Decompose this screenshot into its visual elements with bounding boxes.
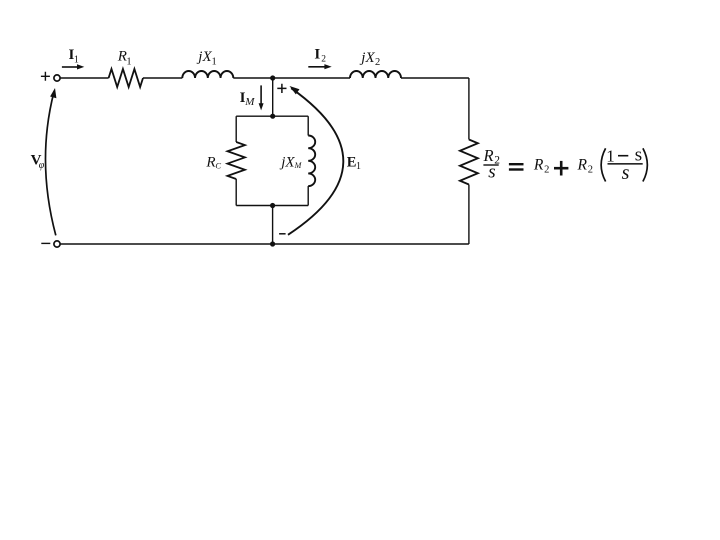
wire right lower [468, 185, 470, 245]
wire vertical top node to box [272, 78, 274, 116]
label E1 [347, 154, 361, 171]
current arrow I2 [308, 64, 331, 69]
svg-text:I: I [314, 47, 320, 63]
emf arc E1 [288, 86, 343, 235]
node junction bottom [270, 241, 275, 246]
svg-text:2: 2 [544, 164, 549, 175]
equation R2 first [533, 156, 549, 175]
box right lower wire [307, 186, 309, 205]
node junction box top [270, 114, 275, 119]
terminal plus sign (top left) [41, 72, 50, 81]
equation R2 second [577, 156, 593, 175]
label R1 [117, 49, 132, 68]
wire right upper [468, 78, 470, 140]
node junction box bottom [270, 203, 275, 208]
equation left parenthesis [601, 148, 605, 181]
svg-text:M: M [294, 161, 303, 170]
terminal minus sign (bottom left) [41, 242, 50, 244]
svg-text:R: R [577, 156, 588, 173]
svg-text:s: s [488, 161, 495, 182]
svg-text:2: 2 [588, 164, 593, 175]
equation plus sign [554, 161, 568, 176]
box bottom wire [236, 205, 308, 207]
box left lower wire [235, 179, 237, 206]
label IM [240, 90, 256, 108]
equation equals sign [509, 163, 524, 171]
resistor RC [228, 142, 245, 179]
svg-text:s: s [635, 145, 642, 166]
svg-text:M: M [244, 96, 255, 108]
svg-text:R: R [533, 156, 544, 173]
polarity plus (E1 top) [277, 84, 286, 93]
svg-text:s: s [622, 162, 630, 184]
svg-text:φ: φ [39, 160, 45, 171]
polarity minus (E1 bottom) [279, 233, 286, 235]
wire top segment 2 [143, 77, 182, 79]
equation right parenthesis [643, 148, 647, 181]
svg-text:1: 1 [126, 56, 131, 67]
wire top segment 4 [401, 77, 469, 79]
label jX2 [359, 50, 380, 68]
svg-text:1: 1 [74, 54, 79, 65]
inductor jX2 [350, 71, 401, 78]
bottom-left terminal circle [54, 241, 60, 247]
wire vertical box to bottom [272, 206, 274, 245]
svg-text:1: 1 [356, 161, 361, 172]
node junction top [270, 75, 275, 80]
source arc V_phi [45, 88, 56, 235]
svg-text:jX: jX [279, 155, 295, 171]
inductor jXM [308, 136, 315, 187]
current arrow I1 [62, 64, 84, 69]
label jXM [279, 155, 302, 171]
wire top segment 1 [60, 77, 108, 79]
label I1 [69, 47, 79, 65]
wire top segment 3 [233, 77, 350, 79]
svg-text:R: R [205, 154, 215, 170]
label R2/s fraction [483, 146, 501, 183]
svg-text:C: C [215, 161, 221, 171]
svg-text:jX: jX [196, 49, 212, 65]
label RC [205, 154, 221, 170]
current arrow IM [259, 85, 264, 110]
equation numerator 1 - s [606, 145, 642, 166]
label V_phi [31, 152, 45, 171]
label jX1 [196, 49, 216, 67]
svg-text:2: 2 [375, 57, 380, 68]
top-left terminal circle [54, 75, 60, 81]
box top wire [236, 115, 308, 117]
equation fraction bar [608, 163, 643, 165]
resistor R2/s [460, 140, 478, 185]
svg-text:R: R [117, 49, 127, 65]
svg-text:2: 2 [321, 55, 326, 65]
wire bottom [60, 243, 469, 245]
svg-text:jX: jX [359, 50, 375, 66]
box left upper wire [235, 116, 237, 142]
label I2 [314, 47, 326, 65]
box right upper wire [307, 116, 309, 135]
svg-text:1: 1 [606, 146, 615, 165]
svg-text:1: 1 [212, 57, 217, 68]
inductor jX1 [182, 71, 233, 78]
resistor R1 [109, 69, 143, 87]
